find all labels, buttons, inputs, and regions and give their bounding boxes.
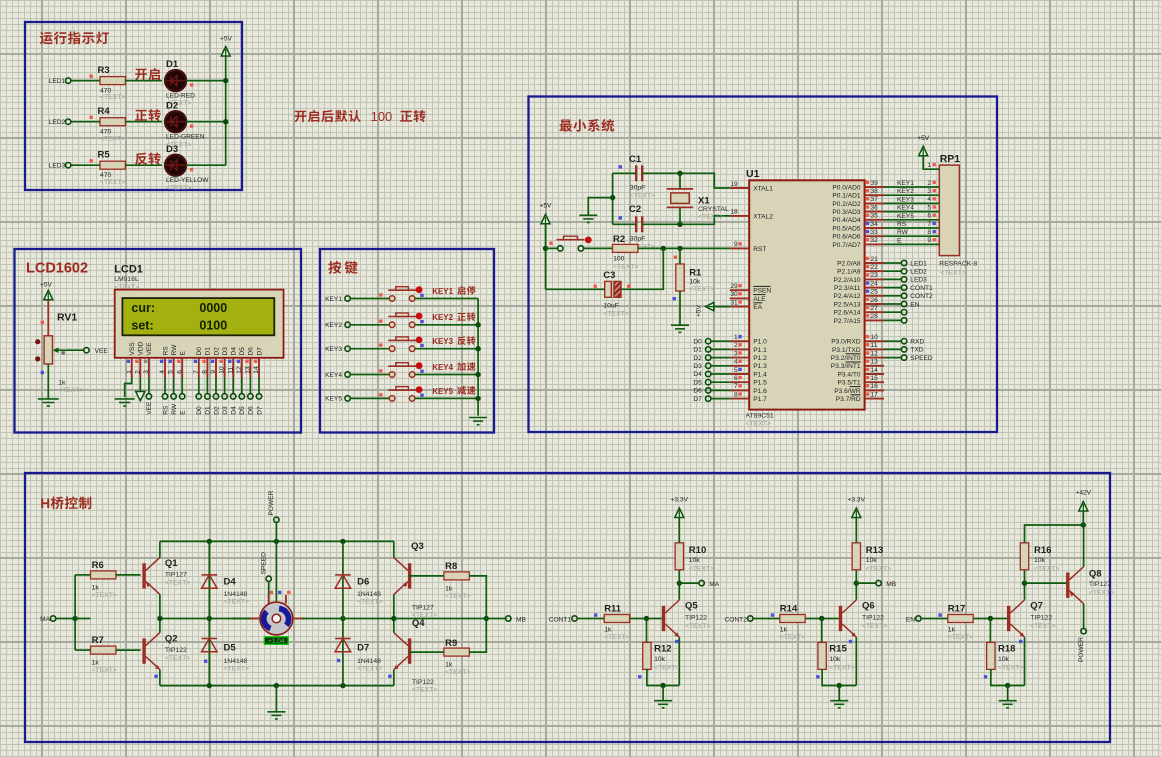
svg-text:KEY2: KEY2 [897,188,914,195]
svg-text:P2.1/A9: P2.1/A9 [837,269,861,276]
svg-text:RW: RW [171,344,178,356]
svg-text:RS: RS [162,346,169,356]
svg-text:P3.1/TXD: P3.1/TXD [832,347,861,354]
svg-text:CONT1: CONT1 [549,617,572,624]
svg-text:D1: D1 [205,406,212,415]
svg-text:R3: R3 [98,65,110,76]
svg-text:C1: C1 [629,154,642,165]
svg-text:1: 1 [734,334,738,341]
svg-text:14: 14 [253,366,260,374]
svg-text:4: 4 [734,359,738,366]
svg-text:P2.5/A13: P2.5/A13 [833,301,860,308]
svg-text:TIP122: TIP122 [685,615,707,622]
svg-text:RP1: RP1 [940,153,961,165]
svg-text:PSEN: PSEN [753,288,771,295]
svg-text:D2: D2 [213,406,220,415]
svg-text:<TEXT>: <TEXT> [412,687,437,694]
svg-text:D1: D1 [693,347,702,354]
svg-text:<TEXT>: <TEXT> [58,387,83,394]
svg-text:D7: D7 [357,643,369,654]
svg-text:1k: 1k [92,660,100,667]
svg-text:1N4148: 1N4148 [357,658,381,665]
svg-text:<TEXT>: <TEXT> [630,192,655,199]
svg-text:P3.7/RD: P3.7/RD [836,396,861,403]
svg-text:Q2: Q2 [165,634,178,645]
svg-text:R4: R4 [98,106,111,117]
svg-text:D3: D3 [693,363,702,370]
svg-text:KEY5: KEY5 [325,396,342,403]
svg-text:D7: D7 [256,347,263,356]
svg-text:CRYSTAL: CRYSTAL [698,206,729,213]
svg-text:P0.2/AD2: P0.2/AD2 [832,201,861,208]
svg-text:MB: MB [886,581,896,588]
svg-text:P1.0: P1.0 [753,339,767,346]
svg-text:P0.7/AD7: P0.7/AD7 [832,242,861,249]
svg-text:KEY5: KEY5 [432,387,453,396]
svg-text:P1.7: P1.7 [753,396,767,403]
svg-text:<TEXT>: <TEXT> [829,665,854,672]
svg-text:TIP122: TIP122 [862,615,884,622]
svg-text:8: 8 [927,229,931,236]
svg-text:D7: D7 [693,396,702,403]
svg-text:Q4: Q4 [412,618,425,629]
svg-text:10k: 10k [866,557,878,564]
svg-text:<TEXT>: <TEXT> [166,185,191,192]
svg-text:<TEXT>: <TEXT> [1030,623,1055,630]
svg-text:<TEXT>: <TEXT> [224,599,249,606]
svg-text:<TEXT>: <TEXT> [92,592,117,599]
svg-text:<TEXT>: <TEXT> [357,599,382,606]
svg-text:D5: D5 [239,347,246,356]
svg-text:Q5: Q5 [685,601,698,612]
svg-text:VSS: VSS [129,342,136,356]
svg-text:<TEXT>: <TEXT> [998,665,1023,672]
svg-text:Q7: Q7 [1030,601,1043,612]
svg-text:D3: D3 [222,347,229,356]
svg-text:RW: RW [897,229,909,236]
svg-text:CONT2: CONT2 [725,617,748,624]
svg-text:30pF: 30pF [630,236,646,243]
svg-text:KEY2: KEY2 [325,322,342,329]
svg-text:RW: RW [171,403,178,415]
svg-text:KEY3: KEY3 [897,196,914,203]
svg-text:P1.1: P1.1 [753,347,767,354]
svg-text:D0: D0 [196,347,203,356]
svg-text:D5: D5 [239,406,246,415]
svg-text:P1.3: P1.3 [753,363,767,370]
svg-text:D2: D2 [693,355,702,362]
svg-text:LED3: LED3 [910,277,927,284]
svg-text:29: 29 [730,283,738,290]
svg-text:RXD: RXD [910,339,924,346]
svg-text:C3: C3 [603,270,615,281]
svg-text:100: 100 [613,256,625,263]
svg-text:EA: EA [753,304,762,311]
svg-text:P0.1/AD1: P0.1/AD1 [832,193,861,200]
svg-text:SPEED: SPEED [910,355,933,362]
svg-text:POWER: POWER [1078,637,1085,662]
svg-text:D4: D4 [693,371,702,378]
svg-text:LED1: LED1 [49,78,66,85]
svg-text:D3: D3 [166,144,178,155]
svg-text:cur:: cur: [131,301,155,315]
svg-text:<TEXT>: <TEXT> [603,310,628,317]
svg-text:R7: R7 [92,635,104,646]
svg-text:10k: 10k [829,656,841,663]
svg-text:E: E [180,351,187,356]
svg-text:<TEXT>: <TEXT> [698,214,723,221]
svg-text:19: 19 [730,181,738,188]
svg-text:3: 3 [927,188,931,195]
svg-text:1k: 1k [58,380,66,387]
svg-text:P2.4/A12: P2.4/A12 [833,293,860,300]
svg-text:5: 5 [168,370,175,374]
svg-text:<TEXT>: <TEXT> [224,666,249,673]
svg-text:XTAL1: XTAL1 [753,185,773,192]
svg-text:13: 13 [871,359,879,366]
svg-text:10: 10 [871,334,879,341]
svg-text:VEE: VEE [146,342,153,356]
svg-text:24: 24 [871,280,879,287]
svg-text:EN: EN [910,301,919,308]
svg-text:12: 12 [236,366,243,374]
svg-text:13: 13 [245,366,252,374]
svg-text:H: H [40,496,50,511]
svg-text:30pF: 30pF [630,185,646,192]
svg-text:35: 35 [871,213,879,220]
svg-text:<TEXT>: <TEXT> [654,665,679,672]
svg-text:<TEXT>: <TEXT> [92,667,117,674]
svg-text:P1.5: P1.5 [753,380,767,387]
svg-text:9: 9 [927,237,931,244]
svg-text:<TEXT>: <TEXT> [100,94,125,101]
svg-text:1: 1 [927,162,931,169]
svg-text:1N4148: 1N4148 [224,591,248,598]
svg-text:3: 3 [734,350,738,357]
svg-text:P1.6: P1.6 [753,388,767,395]
svg-text:30: 30 [730,291,738,298]
svg-text:1N4148: 1N4148 [224,658,248,665]
svg-text:10k: 10k [998,656,1010,663]
svg-text:17: 17 [871,391,879,398]
svg-text:TIP127: TIP127 [165,572,187,579]
svg-text:7: 7 [734,383,738,390]
svg-text:10uF: 10uF [603,303,619,310]
svg-text:38: 38 [871,188,879,195]
svg-text:25: 25 [871,289,879,296]
svg-text:D6: D6 [357,577,369,588]
svg-text:R18: R18 [998,644,1015,655]
svg-text:VDD: VDD [138,341,145,355]
svg-text:<TEXT>: <TEXT> [604,634,629,641]
svg-text:+5V: +5V [540,203,553,210]
svg-text:E: E [897,237,902,244]
svg-text:P0.6/AD6: P0.6/AD6 [832,234,861,241]
svg-text:X1: X1 [698,195,710,206]
svg-text:Q3: Q3 [411,541,424,552]
svg-text:CONT1: CONT1 [910,285,933,292]
svg-text:0000: 0000 [199,301,227,315]
svg-text:E: E [180,410,187,415]
svg-text:8: 8 [202,370,209,374]
svg-text:Q1: Q1 [165,558,178,569]
svg-text:33: 33 [871,229,879,236]
svg-text:D1: D1 [205,347,212,356]
svg-text:TIP127: TIP127 [1089,581,1111,588]
svg-text:<TEXT>: <TEXT> [613,263,638,270]
svg-text:R9: R9 [445,638,457,649]
svg-text:P2.6/A14: P2.6/A14 [833,310,860,317]
svg-text:TIP127: TIP127 [412,604,434,611]
svg-text:R13: R13 [866,545,883,556]
svg-text:LED2: LED2 [910,269,927,276]
svg-text:+5V: +5V [40,282,53,289]
svg-text:R5: R5 [98,150,111,161]
svg-text:LED-RED: LED-RED [166,92,195,99]
svg-text:+5V: +5V [696,304,703,317]
svg-text:D5: D5 [224,643,237,654]
svg-text:D6: D6 [693,388,702,395]
svg-text:D5: D5 [693,379,702,386]
svg-text:R12: R12 [654,644,671,655]
svg-text:<TEXT>: <TEXT> [685,623,710,630]
svg-text:R8: R8 [445,561,457,572]
svg-text:1k: 1k [92,585,100,592]
svg-text:MA: MA [40,616,50,623]
svg-text:+3.3V: +3.3V [848,497,866,504]
svg-text:RS: RS [162,405,169,415]
svg-text:P2.3/A11: P2.3/A11 [834,285,861,292]
svg-text:AT89C51: AT89C51 [746,413,774,420]
svg-text:XTAL2: XTAL2 [753,213,773,220]
svg-text:MB: MB [516,617,526,624]
svg-text:10: 10 [219,366,226,374]
svg-text:RESPACK-8: RESPACK-8 [939,261,977,268]
svg-text:D7: D7 [256,406,263,415]
svg-text:P2.0/A8: P2.0/A8 [837,260,861,267]
svg-text:KEY3: KEY3 [325,346,342,353]
svg-text:D6: D6 [248,406,255,415]
svg-text:2: 2 [134,370,141,374]
svg-text:+1.04: +1.04 [268,638,285,645]
svg-text:D1: D1 [166,59,179,70]
svg-text:26: 26 [871,297,879,304]
svg-text:32: 32 [871,237,879,244]
svg-text:100: 100 [371,109,393,124]
svg-text:<TEXT>: <TEXT> [862,623,887,630]
svg-text:POWER: POWER [268,490,275,515]
svg-text:<TEXT>: <TEXT> [746,421,771,428]
svg-text:SPEED: SPEED [261,552,268,575]
svg-text:D4: D4 [224,577,237,588]
svg-text:D2: D2 [213,347,220,356]
svg-text:1k: 1k [948,627,956,634]
svg-text:11: 11 [871,342,878,349]
svg-text:<TEXT>: <TEXT> [948,634,973,641]
svg-text:KEY3: KEY3 [432,337,453,346]
svg-text:5: 5 [734,367,738,374]
svg-text:<TEXT>: <TEXT> [445,669,470,676]
svg-text:<TEXT>: <TEXT> [445,593,470,600]
svg-text:Q8: Q8 [1089,569,1102,580]
svg-text:9: 9 [734,241,738,248]
svg-text:<TEXT>: <TEXT> [165,580,190,587]
svg-text:RS: RS [897,221,907,228]
svg-text:D0: D0 [196,406,203,415]
svg-text:U1: U1 [746,168,760,180]
svg-text:P2.2/A10: P2.2/A10 [833,277,860,284]
svg-text:KEY4: KEY4 [432,363,453,372]
svg-text:+5V: +5V [220,36,233,43]
svg-text:P3.5/T1: P3.5/T1 [838,380,861,387]
svg-text:KEY1: KEY1 [325,296,342,303]
svg-text:MA: MA [709,581,719,588]
svg-text:P3.0/RXD: P3.0/RXD [831,339,861,346]
svg-text:set:: set: [131,318,153,332]
svg-text:1k: 1k [780,627,788,634]
svg-text:1N4148: 1N4148 [357,591,381,598]
svg-text:<TEXT>: <TEXT> [941,270,966,277]
svg-text:1k: 1k [445,586,453,593]
svg-text:R15: R15 [829,644,847,655]
svg-text:LCD1602: LCD1602 [26,261,88,277]
svg-text:28: 28 [871,313,879,320]
svg-text:+3.3V: +3.3V [671,497,689,504]
svg-text:R6: R6 [92,560,104,571]
svg-text:<TEXT>: <TEXT> [165,655,190,662]
svg-text:P0.3/AD3: P0.3/AD3 [832,209,861,216]
svg-text:P3.4/T0: P3.4/T0 [838,371,861,378]
svg-text:9: 9 [210,370,217,374]
svg-text:P1.2: P1.2 [753,355,767,362]
svg-text:1k: 1k [445,662,453,669]
svg-text:LCD1: LCD1 [114,264,143,276]
svg-text:31: 31 [730,299,738,306]
svg-text:R11: R11 [604,604,622,615]
svg-text:VEE: VEE [95,348,109,355]
svg-text:22: 22 [871,264,879,271]
svg-text:LED2: LED2 [49,119,66,126]
svg-text:<TEXT>: <TEXT> [1089,590,1114,597]
svg-text:+5V: +5V [917,135,930,142]
svg-text:P0.4/AD4: P0.4/AD4 [832,217,861,224]
svg-text:3: 3 [143,370,150,374]
svg-text:D4: D4 [231,406,238,415]
svg-text:RST: RST [753,246,766,253]
svg-text:P3.2/INT0: P3.2/INT0 [831,355,861,362]
svg-text:R16: R16 [1034,545,1051,556]
svg-text:Q6: Q6 [862,601,875,612]
svg-text:+42V: +42V [1076,490,1092,497]
svg-text:15: 15 [871,375,879,382]
svg-text:TXD: TXD [910,347,923,354]
svg-text:1: 1 [126,370,133,374]
svg-text:10k: 10k [689,557,701,564]
svg-text:27: 27 [871,305,879,312]
svg-text:10k: 10k [654,656,666,663]
svg-text:D0: D0 [693,338,702,345]
svg-text:LED1: LED1 [910,260,927,267]
svg-text:CONT2: CONT2 [910,293,933,300]
svg-text:<TEXT>: <TEXT> [100,179,125,186]
svg-text:5: 5 [927,204,931,211]
svg-text:<TEXT>: <TEXT> [780,634,805,641]
svg-text:R1: R1 [689,268,702,279]
svg-text:11: 11 [227,367,234,374]
svg-text:6: 6 [927,213,931,220]
svg-text:10k: 10k [1034,557,1046,564]
svg-text:<TEXT>: <TEXT> [689,566,714,573]
svg-text:R17: R17 [948,604,965,615]
svg-text:D4: D4 [231,347,238,356]
svg-text:7: 7 [193,370,200,374]
svg-text:RV1: RV1 [57,312,77,324]
svg-text:6: 6 [734,375,738,382]
svg-text:R14: R14 [780,604,798,615]
svg-text:34: 34 [871,221,879,228]
svg-text:18: 18 [730,209,738,216]
svg-text:21: 21 [871,256,879,263]
svg-text:1k: 1k [604,627,612,634]
svg-text:KEY1: KEY1 [432,287,453,296]
svg-text:R2: R2 [613,234,625,245]
svg-text:P3.6/WR: P3.6/WR [834,388,861,395]
svg-text:<TEXT>: <TEXT> [1034,566,1059,573]
svg-text:23: 23 [871,272,879,279]
svg-text:<TEXT>: <TEXT> [866,566,891,573]
svg-text:D6: D6 [248,347,255,356]
svg-text:P0.5/AD5: P0.5/AD5 [832,225,861,232]
svg-text:P2.7/A15: P2.7/A15 [833,318,860,325]
svg-text:<TEXT>: <TEXT> [357,666,382,673]
svg-text:LED-GREEN: LED-GREEN [166,134,205,141]
svg-text:LM016L: LM016L [114,276,139,283]
svg-text:LED3: LED3 [49,163,66,170]
svg-text:P3.3/INT1: P3.3/INT1 [831,363,861,370]
svg-text:10k: 10k [689,278,701,285]
svg-text:TIP122: TIP122 [165,647,187,654]
svg-text:7: 7 [927,221,931,228]
svg-text:KEY2: KEY2 [432,313,453,322]
svg-text:P1.4: P1.4 [753,371,767,378]
svg-text:12: 12 [871,350,879,357]
svg-text:0100: 0100 [199,318,227,332]
svg-text:KEY4: KEY4 [897,205,914,212]
svg-text:R10: R10 [689,545,706,556]
svg-text:KEY5: KEY5 [897,213,914,220]
svg-text:8: 8 [734,391,738,398]
svg-text:2: 2 [927,180,931,187]
svg-text:D3: D3 [222,406,229,415]
svg-text:EN: EN [906,617,915,624]
svg-text:KEY1: KEY1 [897,180,914,187]
svg-text:2: 2 [734,342,738,349]
svg-text:KEY4: KEY4 [325,372,342,379]
svg-text:14: 14 [871,367,879,374]
svg-text:ALE: ALE [753,296,766,303]
svg-text:36: 36 [871,204,879,211]
svg-text:P0.0/AD0: P0.0/AD0 [832,184,861,191]
svg-text:6: 6 [176,370,183,374]
svg-text:TIP122: TIP122 [412,679,434,686]
svg-text:39: 39 [871,180,879,187]
svg-text:4: 4 [927,196,931,203]
svg-text:TIP122: TIP122 [1030,615,1052,622]
svg-text:<TEXT>: <TEXT> [689,286,714,293]
svg-text:LED-YELLOW: LED-YELLOW [166,177,209,184]
svg-text:37: 37 [871,196,879,203]
svg-text:4: 4 [159,370,166,374]
